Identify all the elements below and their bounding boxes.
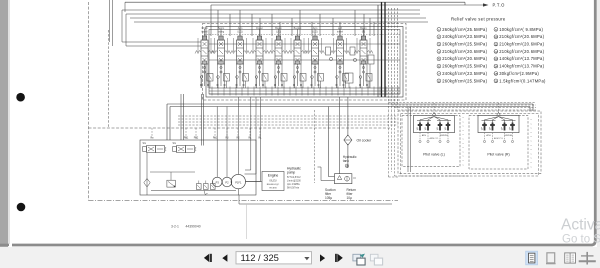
svg-text:105μ: 105μ [325, 196, 332, 200]
svg-text:57.5×2,8.5×2: 57.5×2,8.5×2 [287, 176, 301, 179]
svg-text:SG: SG [143, 142, 147, 145]
svg-text:ATH: ATH [422, 134, 427, 137]
svg-text:P3: P3 [216, 181, 220, 185]
svg-text:260kgf/cm²(25.5MPa): 260kgf/cm²(25.5MPa) [442, 78, 487, 83]
svg-text:Pilot valve (R): Pilot valve (R) [487, 153, 509, 157]
svg-text:Engine: Engine [268, 174, 279, 178]
svg-text:ARM CYL: ARM CYL [494, 137, 504, 140]
svg-text:ATH: ATH [486, 134, 491, 137]
svg-text:Pilot valve (L): Pilot valve (L) [423, 153, 445, 157]
svg-text:ISUZU: ISUZU [269, 180, 276, 183]
svg-text:ARM CYL: ARM CYL [430, 137, 440, 140]
svg-text:30kgf/cm²(2.9MPa): 30kgf/cm²(2.9MPa) [499, 71, 539, 76]
svg-text:SWIVEL: SWIVEL [504, 135, 513, 137]
svg-text:44399040: 44399040 [186, 224, 201, 228]
svg-text:260kgf/cm²(25.5MPa): 260kgf/cm²(25.5MPa) [442, 27, 487, 32]
svg-text:140kgf/cm²(13.7MPa): 140kgf/cm²(13.7MPa) [499, 56, 544, 61]
svg-text:10μ: 10μ [347, 196, 353, 200]
svg-text:210kgf/cm²(20.6MPa): 210kgf/cm²(20.6MPa) [442, 56, 487, 61]
svg-text:260kgf/cm²(25.5MPa): 260kgf/cm²(25.5MPa) [442, 64, 487, 69]
svg-text:P1F1: P1F1 [235, 180, 242, 184]
svg-text:12: 12 [494, 50, 498, 54]
svg-text:P.T.O: P.T.O [493, 3, 506, 8]
svg-text:99.3kW: 99.3kW [269, 187, 277, 189]
svg-text:3-2-1: 3-2-1 [171, 224, 179, 228]
svg-text:PB1: PB1 [184, 137, 189, 140]
svg-text:98·6.5/7min: 98·6.5/7min [287, 188, 300, 190]
svg-text:210kgf/cm²(20.6MPa): 210kgf/cm²(20.6MPa) [499, 34, 544, 39]
svg-text:Go to Se: Go to Se [562, 233, 600, 245]
svg-text:pump: pump [287, 170, 295, 174]
svg-text:SWIVEL: SWIVEL [440, 135, 449, 137]
svg-text:Oil cooler: Oil cooler [357, 138, 373, 142]
svg-text:P2: P2 [225, 181, 229, 185]
svg-text:SG: SG [173, 142, 177, 145]
svg-text:tank: tank [343, 159, 350, 163]
svg-text:14: 14 [494, 65, 498, 69]
svg-text:Relief valve set pressure: Relief valve set pressure [451, 17, 506, 22]
svg-text:240kgf/cm²(23.5MPa): 240kgf/cm²(23.5MPa) [442, 71, 487, 76]
svg-text:210kgf/cm²(20.6MPa): 210kgf/cm²(20.6MPa) [442, 49, 487, 54]
svg-text:260kgf/cm²(25.5MPa): 260kgf/cm²(25.5MPa) [442, 42, 487, 47]
svg-text:15: 15 [494, 72, 498, 76]
svg-text:PB2: PB2 [194, 137, 199, 140]
svg-text:11: 11 [494, 43, 497, 47]
svg-text:240kgf/cm²(23.5MPa): 240kgf/cm²(23.5MPa) [442, 34, 487, 39]
svg-text:Activate: Activate [561, 217, 600, 234]
svg-text:210kgf/cm²(20.6MPa): 210kgf/cm²(20.6MPa) [499, 42, 544, 47]
svg-text:L/min @2100: L/min @2100 [287, 180, 301, 182]
svg-text:13: 13 [494, 57, 498, 61]
svg-text:BB-6BG1QC: BB-6BG1QC [267, 184, 280, 186]
svg-text:rpm 4.9MPa: rpm 4.9MPa [287, 183, 300, 186]
svg-text:16: 16 [494, 79, 498, 83]
svg-text:10: 10 [494, 35, 498, 39]
svg-text:140kgf/cm²(13.7MPa): 140kgf/cm²(13.7MPa) [499, 64, 544, 69]
svg-text:112 / 325: 112 / 325 [241, 252, 279, 263]
svg-text:210kgf/cm²(20.6MPa): 210kgf/cm²(20.6MPa) [499, 49, 544, 54]
svg-text:100kgf/cm²( 9.8MPa): 100kgf/cm²( 9.8MPa) [499, 27, 543, 32]
svg-text:swing: swing [218, 30, 225, 33]
svg-text:1.5kgf/cm²(0.147MPa): 1.5kgf/cm²(0.147MPa) [499, 78, 546, 83]
